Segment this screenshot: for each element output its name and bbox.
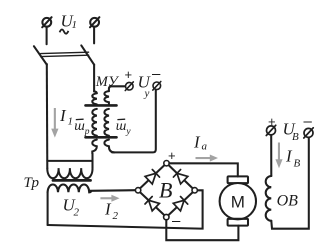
current arrow I1 [51,108,58,138]
switch S link bar [41,52,89,56]
svg-text:1: 1 [68,116,74,128]
bridge arm bottom-right [168,192,192,215]
bridge arm top-right [169,165,193,188]
wire T1 to switch left pole [46,28,48,45]
svg-text:+: + [268,114,276,129]
bridge node bottom [164,214,169,219]
current arrow IB [275,143,282,169]
field winding OB [266,176,272,221]
wire T2 to switch right pole [93,28,95,44]
svg-text:ш: ш [116,119,127,134]
field branch: wire UB plus terminal down to OB [270,135,272,176]
svg-text:у: у [144,88,150,100]
svg-text:2: 2 [113,210,119,222]
bridge arm top-left [140,165,165,188]
motor M brush bottom [228,219,248,226]
wire wy bottom to Uy minus terminal [112,90,156,152]
svg-text:1: 1 [72,19,78,31]
svg-text:М: М [231,193,245,212]
svg-text:а: а [202,141,208,153]
label U1 [60,12,77,34]
transformer Tr core [53,179,91,182]
MU core lower [86,136,117,139]
svg-text:+: + [125,67,133,82]
MU core upper [86,104,117,107]
wire bridge plus to motor top [169,163,238,176]
wire bridge minus to motor bottom [166,220,238,240]
label UB [283,120,300,144]
label Uy [138,73,152,100]
switch S left blade [34,46,47,64]
bridge node left [135,188,140,193]
svg-text:В: В [292,131,299,143]
label Ia [193,133,208,153]
diode VD2 upper-right [173,170,187,184]
switch S right blade [81,45,94,64]
svg-text:ш: ш [74,119,85,134]
transformer Tr primary winding [47,154,92,169]
svg-text:МУ: МУ [95,74,120,90]
wire secondary to bridge left vertex (I2 wire) [90,189,136,192]
svg-text:–: – [172,212,181,229]
wire OB bottom to UB minus terminal [271,138,309,229]
svg-text:у: у [125,127,131,137]
terminal Uy plus [125,82,133,91]
terminal X1 of U1 [42,17,51,27]
terminal UB minus [304,128,313,138]
diode VD4 lower-right [173,197,187,211]
diode VD1 upper-left [145,170,159,184]
svg-text:+: + [168,148,176,163]
terminal X2 of U1 [90,17,99,27]
svg-text:В: В [159,178,172,203]
diode VD3 lower-left [145,197,159,211]
wire secondary left to bottom rail [47,192,49,225]
svg-text:2: 2 [74,207,80,219]
wire switch left pole to transformer primary [46,64,49,168]
label IB [285,147,301,170]
label wy [116,119,132,137]
svg-text:р: р [84,127,90,137]
motor M body [220,183,256,219]
svg-text:В: В [294,158,301,170]
bridge arm bottom-left [140,192,164,215]
label U2 [63,196,80,219]
label I2 [104,200,119,223]
bridge node right [192,188,197,193]
svg-text:–: – [152,66,161,83]
current arrow Ia [196,155,219,162]
motor M brush top [228,176,248,183]
terminal Uy minus [153,82,161,91]
label wp [74,119,90,137]
label I1 [59,106,73,128]
bottom rail wire to bridge ac2 [48,190,203,228]
svg-text:ОВ: ОВ [277,193,299,210]
current arrow I2 [100,195,119,202]
magnetic amplifier winding wp [92,91,97,104]
wire wy top to Uy plus terminal [109,86,125,91]
terminal UB plus [266,125,275,135]
magnetic amplifier winding wy [104,91,109,104]
svg-text:–: – [304,113,313,130]
transformer Tr secondary winding [48,184,92,192]
svg-text:Тр: Тр [24,175,40,191]
bridge node top [164,161,169,166]
wire switch right pole to winding wp top [93,65,95,92]
